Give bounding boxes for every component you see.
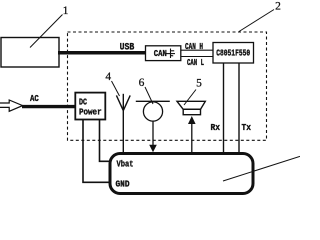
CAN interface card box xyxy=(146,46,181,61)
antenna 4 xyxy=(116,94,130,153)
block 1: host computer box xyxy=(1,38,59,68)
label 4 leader xyxy=(112,81,120,96)
AC input arrow xyxy=(0,100,23,111)
svg-text:USB: USB xyxy=(120,43,135,54)
svg-text:GND: GND xyxy=(116,179,131,189)
label Rx xyxy=(211,123,221,133)
microphone 6 xyxy=(136,101,170,146)
label DC xyxy=(79,98,87,108)
USB bus wire (thick) xyxy=(58,51,146,55)
wire Vbat feed (DC power to module) xyxy=(100,120,114,162)
svg-text:Rx: Rx xyxy=(211,123,221,133)
wire CAN H xyxy=(181,49,213,51)
svg-text:AC: AC xyxy=(30,94,39,104)
label 1 xyxy=(63,5,69,17)
label 6 xyxy=(139,77,145,89)
svg-text:2: 2 xyxy=(275,1,281,13)
svg-text:CAN H: CAN H xyxy=(185,42,203,52)
vehicle-mounted terminal module (rounded box) xyxy=(110,154,253,194)
wire GND feed (DC power to module) xyxy=(83,120,111,183)
label CAN (of CAN card) xyxy=(154,49,167,59)
wire Tx (MCU to module) xyxy=(238,63,240,153)
label Vbat xyxy=(117,160,134,170)
wire Rx (MCU to module) xyxy=(223,63,225,153)
label 2 leader xyxy=(239,10,274,32)
dashed enclosure 2 xyxy=(68,32,267,140)
svg-text:1: 1 xyxy=(63,5,69,17)
svg-text:4: 4 xyxy=(105,71,111,83)
svg-text:6: 6 xyxy=(139,77,145,89)
svg-text:CAN L: CAN L xyxy=(187,58,204,68)
svg-text:Vbat: Vbat xyxy=(117,160,134,170)
DC power module box xyxy=(75,93,105,120)
label Tx xyxy=(242,123,252,133)
svg-text:DC: DC xyxy=(79,98,87,108)
label GND xyxy=(116,179,131,189)
label 6 leader xyxy=(145,87,153,104)
label 5 xyxy=(196,78,202,90)
label CAN H xyxy=(185,42,203,52)
label CAN L xyxy=(187,58,204,68)
wire CAN L xyxy=(181,56,213,58)
label 5 leader xyxy=(184,90,196,106)
label 2 xyxy=(275,1,281,13)
svg-text:Power: Power xyxy=(79,108,102,118)
AC power wire (thick) xyxy=(22,105,76,108)
microphone arrowhead (into module) xyxy=(149,145,157,153)
label Power xyxy=(79,108,102,118)
label C8051F550 xyxy=(216,49,250,59)
glyph: Chinese character ka (card) xyxy=(166,49,175,59)
MCU C8051F550 box xyxy=(213,43,254,64)
label USB xyxy=(120,43,135,54)
label AC xyxy=(30,94,39,104)
label 4 xyxy=(105,71,111,83)
speaker feed wire with up arrowhead xyxy=(188,116,196,153)
speaker 5 xyxy=(177,101,205,114)
svg-text:C8051F550: C8051F550 xyxy=(216,49,250,59)
svg-text:Tx: Tx xyxy=(242,123,252,133)
label 3 leader (label off right edge) xyxy=(223,156,300,181)
svg-text:CAN: CAN xyxy=(154,49,167,59)
svg-text:5: 5 xyxy=(196,78,202,90)
label 1 leader xyxy=(30,15,63,48)
